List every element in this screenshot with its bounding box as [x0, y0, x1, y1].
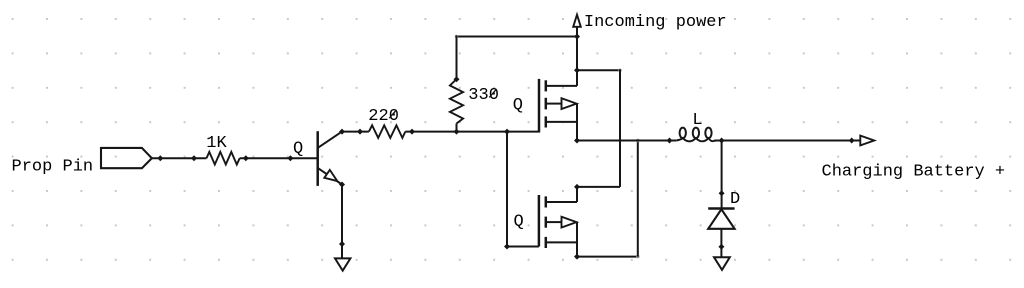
inductor L loop 2 — [693, 128, 699, 139]
svg-text:Q: Q — [293, 140, 303, 159]
corner dot — [618, 69, 621, 72]
svg-text:Q: Q — [514, 213, 524, 232]
junction dot lower source — [574, 254, 580, 260]
junction dot — [454, 76, 460, 82]
junction dot riser/output — [636, 139, 640, 143]
wire rail down to R330 — [456, 36, 458, 80]
corner dot — [636, 255, 639, 258]
wire inductor to arrow — [714, 140, 860, 142]
wire R220 to gates — [405, 131, 539, 133]
junction dot — [357, 129, 363, 135]
junction dot — [287, 155, 293, 161]
wire pin to R 1K — [152, 157, 207, 159]
mosfet Q upper gate bar — [538, 79, 541, 133]
mosfet Q upper channel segments — [545, 80, 548, 91]
wire output down to diode — [721, 141, 723, 210]
mosfet Q lower body arrow — [562, 217, 577, 228]
transistor Q base bar — [316, 131, 319, 186]
wire branch riser — [619, 69, 621, 187]
svg-text:330: 330 — [468, 86, 499, 105]
wire collector to R220 — [342, 131, 369, 133]
transistor Q emitter arrow — [324, 170, 337, 181]
wire lower drain to riser — [577, 186, 620, 188]
mosfet Q upper body arrow — [562, 98, 577, 109]
junction dot gate corner — [504, 244, 510, 250]
junction dot — [409, 129, 415, 135]
wire top rail — [457, 36, 578, 38]
power arrow Incoming power — [573, 15, 581, 27]
corner dot — [455, 35, 458, 38]
wire R1K to Q base — [240, 157, 318, 159]
mosfet Q lower source lead — [546, 241, 577, 243]
svg-text:Charging Battery +: Charging Battery + — [822, 163, 1006, 182]
mosfet Q lower body lead — [546, 221, 562, 223]
resistor R 330 — [450, 79, 463, 123]
junction dot R330 bottom — [454, 129, 460, 135]
junction dot — [339, 241, 345, 247]
resistor R 220 — [369, 125, 405, 138]
svg-text:Incoming power: Incoming power — [584, 13, 727, 32]
junction dot before arrow — [849, 138, 855, 144]
transistor Q collector — [318, 132, 342, 148]
junction dot — [191, 155, 197, 161]
svg-text:L: L — [692, 111, 702, 130]
junction dot drain branch — [574, 67, 580, 73]
wire lower source down — [576, 222, 578, 257]
diode D cathode bar — [708, 207, 734, 210]
wire output line — [577, 140, 676, 142]
svg-text:Q: Q — [513, 96, 523, 115]
junction dot emitter — [339, 182, 345, 188]
slash in 0 of 220 — [389, 110, 396, 118]
mosfet Q lower channel segments — [545, 196, 548, 207]
svg-text:220: 220 — [368, 107, 399, 126]
junction dot inductor left — [667, 138, 673, 144]
wire R330 to gate wire — [456, 124, 458, 132]
diode D triangle — [708, 209, 734, 229]
wire arrow to rail — [576, 27, 578, 37]
ground under Q — [335, 258, 350, 270]
inductor L bottom curve — [676, 138, 717, 141]
junction dot gate branch — [504, 129, 510, 135]
wire source down to output — [576, 104, 578, 141]
transistor Q emitter — [318, 168, 342, 185]
resistor R 1K — [207, 152, 240, 165]
wire branch to lower drain — [577, 69, 620, 71]
mosfet Q upper source lead — [546, 121, 577, 123]
slash in 0 of 330 — [489, 89, 496, 97]
connector Prop Pin — [101, 148, 152, 168]
junction dot — [718, 244, 724, 250]
ground under D — [714, 257, 730, 270]
svg-text:Prop Pin: Prop Pin — [12, 158, 94, 177]
junction dot — [243, 155, 249, 161]
junction dot lower drain — [574, 184, 580, 190]
wire gate branch down — [506, 132, 508, 247]
junction dot — [719, 190, 725, 196]
junction dot — [157, 155, 163, 161]
svg-text:D: D — [730, 190, 740, 209]
wire gate corner to bar — [507, 246, 539, 248]
wire drain to rail — [576, 37, 578, 86]
junction dot — [574, 34, 580, 40]
inductor L loop 3 — [705, 128, 711, 139]
wire diode to ground — [720, 229, 722, 257]
svg-text:1K: 1K — [206, 134, 227, 153]
mosfet Q lower drain lead — [546, 201, 577, 203]
mosfet Q lower gate bar — [538, 195, 541, 247]
wire emitter to ground — [341, 185, 343, 259]
wire right riser up to output — [637, 141, 639, 257]
junction dot collector — [339, 129, 345, 135]
junction dot inductor right — [719, 138, 725, 144]
inductor L loop 1 — [680, 128, 686, 139]
mosfet Q upper drain lead — [546, 85, 577, 87]
wire lower source to right riser — [577, 256, 638, 258]
mosfet Q upper body lead — [546, 103, 562, 105]
output arrow — [860, 136, 874, 146]
junction dot source/output — [574, 138, 580, 144]
